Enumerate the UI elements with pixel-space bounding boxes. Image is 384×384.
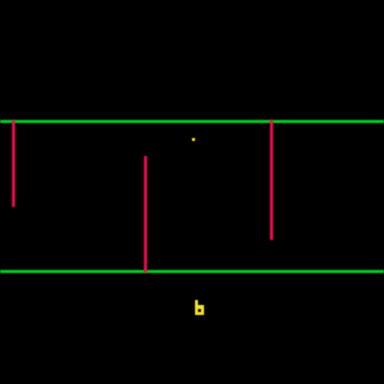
yellow player dot <box>192 138 196 142</box>
bottom green wall <box>0 270 384 273</box>
middle red wall <box>144 156 147 273</box>
letter b glyph <box>0 0 1 1</box>
right red wall <box>270 120 273 240</box>
top green wall <box>0 120 384 123</box>
left red wall <box>12 120 15 207</box>
